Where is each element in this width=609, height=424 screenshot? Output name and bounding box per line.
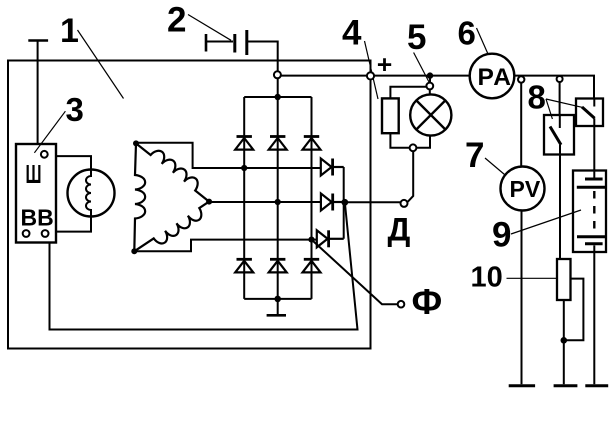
svg-text:ВВ: ВВ <box>21 205 54 231</box>
svg-text:Ф: Ф <box>412 281 443 322</box>
svg-text:Ш: Ш <box>26 159 42 189</box>
svg-text:5: 5 <box>407 18 426 57</box>
svg-text:Д: Д <box>388 212 411 248</box>
svg-text:PV: PV <box>510 176 541 202</box>
svg-text:10: 10 <box>471 261 503 293</box>
svg-text:4: 4 <box>342 13 362 52</box>
svg-text:1: 1 <box>60 12 79 50</box>
svg-text:2: 2 <box>167 1 186 40</box>
svg-text:3: 3 <box>66 91 84 128</box>
svg-text:PA: PA <box>478 64 513 91</box>
svg-text:8: 8 <box>528 79 546 116</box>
svg-text:6: 6 <box>458 15 476 52</box>
svg-text:9: 9 <box>492 216 511 255</box>
svg-text:7: 7 <box>465 136 484 175</box>
